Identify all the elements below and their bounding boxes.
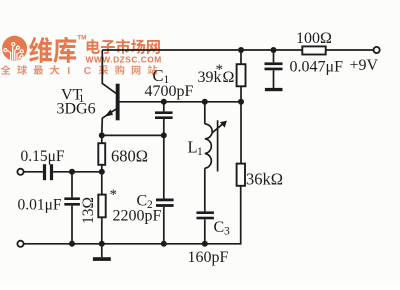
- svg-text:680Ω: 680Ω: [111, 147, 148, 166]
- svg-text:100Ω: 100Ω: [296, 30, 332, 47]
- svg-text:+9V: +9V: [350, 57, 379, 74]
- svg-text:Ω: Ω: [223, 69, 235, 86]
- svg-text:TM: TM: [77, 35, 86, 42]
- svg-text:3: 3: [224, 226, 230, 238]
- svg-text:13Ω: 13Ω: [80, 197, 97, 224]
- svg-text:I: I: [67, 65, 70, 77]
- svg-text:160pF: 160pF: [188, 249, 229, 266]
- svg-text:3DG6: 3DG6: [57, 101, 96, 118]
- svg-text:WWW.DZSC.COM: WWW.DZSC.COM: [86, 55, 162, 65]
- svg-text:0.047μF: 0.047μF: [290, 59, 344, 76]
- svg-text:1: 1: [197, 146, 203, 158]
- svg-text:4700pF: 4700pF: [145, 83, 194, 100]
- svg-text:0.15μF: 0.15μF: [21, 148, 65, 165]
- svg-text:2200pF: 2200pF: [113, 208, 162, 225]
- svg-text:C: C: [84, 65, 92, 77]
- svg-text:C: C: [214, 219, 225, 236]
- svg-text:*: *: [110, 187, 118, 203]
- svg-text:0.01μF: 0.01μF: [18, 197, 62, 214]
- svg-text:36kΩ: 36kΩ: [246, 170, 283, 189]
